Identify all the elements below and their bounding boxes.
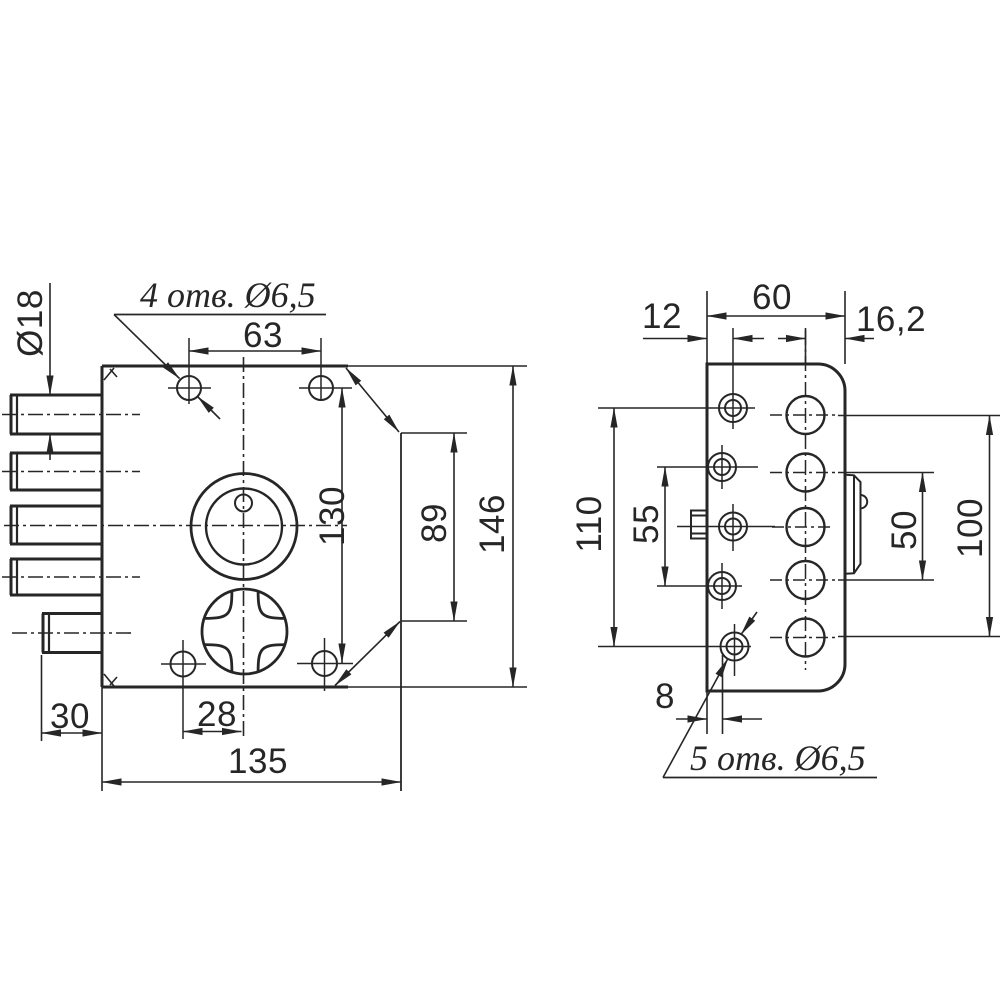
svg-text:63: 63 <box>243 316 283 355</box>
svg-text:89: 89 <box>415 503 454 543</box>
corner tick top-left <box>104 368 117 380</box>
dimension 16,2 arrows <box>778 338 806 340</box>
screw hole 4 <box>708 572 736 600</box>
lock body bottom edge <box>102 686 348 689</box>
dimension 8 extension lines <box>706 691 708 734</box>
dimension 60 line <box>707 315 845 317</box>
svg-text:110: 110 <box>570 495 609 552</box>
keyhole rosette circle <box>202 589 287 674</box>
dimension 110 line <box>613 408 615 647</box>
centerline pin 2 <box>2 471 140 473</box>
centerline pin 4 <box>2 576 140 578</box>
dimension 63 line <box>189 350 321 352</box>
bolt hole circle 4 <box>787 561 825 599</box>
bolt hole circle 2 <box>787 454 825 492</box>
svg-text:55: 55 <box>627 504 666 544</box>
bolt hole circle 5 <box>787 619 825 657</box>
svg-text:4 отв. Ø6,5: 4 отв. Ø6,5 <box>140 275 316 315</box>
dimension 146 line <box>512 366 514 687</box>
centerline latch <box>12 632 133 634</box>
extension line right edge up <box>844 291 846 364</box>
dimension 135 line <box>102 781 401 783</box>
dimension 55 line <box>664 467 666 586</box>
bolt hole circle 1 <box>787 396 825 434</box>
lock body left edge <box>101 366 104 687</box>
callout leader arrow to screw hole 5 <box>663 658 728 777</box>
svg-text:5 отв. Ø6,5: 5 отв. Ø6,5 <box>690 738 866 778</box>
deadbolt pin 1 <box>10 395 102 434</box>
cylinder ring inner <box>206 489 282 565</box>
side bolt bump <box>861 495 868 508</box>
lock body right edge / extension to 135 dimension <box>400 433 402 791</box>
svg-text:146: 146 <box>473 494 512 554</box>
screw hole 2 <box>708 453 736 481</box>
svg-text:16,2: 16,2 <box>856 300 926 339</box>
mounting hole bottom-left <box>171 652 196 677</box>
svg-text:100: 100 <box>951 498 990 558</box>
cam bump on faceplate <box>691 511 707 539</box>
svg-text:28: 28 <box>197 695 237 734</box>
chamfer reference diagonal bottom <box>335 622 400 686</box>
dimension 89 line <box>453 433 455 621</box>
svg-text:50: 50 <box>885 510 924 550</box>
mounting hole bottom-right <box>312 651 337 676</box>
side plate outline <box>707 364 845 691</box>
mounting hole top-right <box>309 376 333 400</box>
diameter 18 leader arrows <box>49 283 51 460</box>
bolt hole circle 3 <box>787 508 825 546</box>
bottom edge extension line to 146 dimension <box>348 686 527 688</box>
centerline pin 1 <box>2 414 140 416</box>
keyhole rosette lobed opening <box>205 591 286 672</box>
vertical centerline of body <box>243 357 245 740</box>
dimension 130 line <box>341 388 343 663</box>
extension line hole column up (solid above plate) <box>805 328 807 364</box>
top edge extension line to 146 dimension <box>348 365 527 367</box>
svg-text:12: 12 <box>642 297 682 336</box>
dimension 12 arrows <box>643 338 707 340</box>
callout leader arrow to top-left hole <box>114 315 180 379</box>
corner tick bottom-left <box>104 674 117 686</box>
dimension 50 line <box>922 473 924 581</box>
dimension 30 extension lines <box>41 655 43 741</box>
svg-text:8: 8 <box>655 677 675 716</box>
mounting hole top-left <box>177 376 201 400</box>
deadbolt pin 4 <box>10 559 102 595</box>
screw hole 5 <box>721 633 749 661</box>
chamfer reference diagonal top <box>346 368 399 432</box>
callout opposite arrow across hole <box>198 397 221 420</box>
side bolt protrusion <box>846 475 861 574</box>
dimension 28 line <box>183 731 242 733</box>
svg-text:60: 60 <box>752 278 792 317</box>
dimension 89 extension lines <box>401 432 467 434</box>
svg-text:30: 30 <box>50 697 90 736</box>
dimension 8 arrows <box>676 718 707 720</box>
extension line left edge up <box>706 291 708 364</box>
vertical centerline bolt holes <box>805 330 807 670</box>
lock body top edge <box>102 365 348 368</box>
callout opposite arrow across screw hole 5 <box>741 612 757 635</box>
screw hole 3 <box>719 513 747 541</box>
deadbolt pin 2 <box>10 453 102 490</box>
cylinder ring outer <box>191 474 297 580</box>
deadbolt pin 3 <box>10 506 102 544</box>
main horizontal centerline <box>4 525 347 527</box>
latch bolt <box>42 614 102 653</box>
svg-text:130: 130 <box>313 486 352 546</box>
svg-text:135: 135 <box>228 742 288 781</box>
dimension 30 line <box>42 732 103 734</box>
svg-text:Ø18: Ø18 <box>11 289 50 357</box>
cylinder pin hole <box>235 495 252 512</box>
screw hole 1 <box>719 394 747 422</box>
callout underline 5 holes <box>663 777 877 779</box>
callout underline 4 holes <box>114 314 326 316</box>
dimension 100 line <box>989 416 991 637</box>
